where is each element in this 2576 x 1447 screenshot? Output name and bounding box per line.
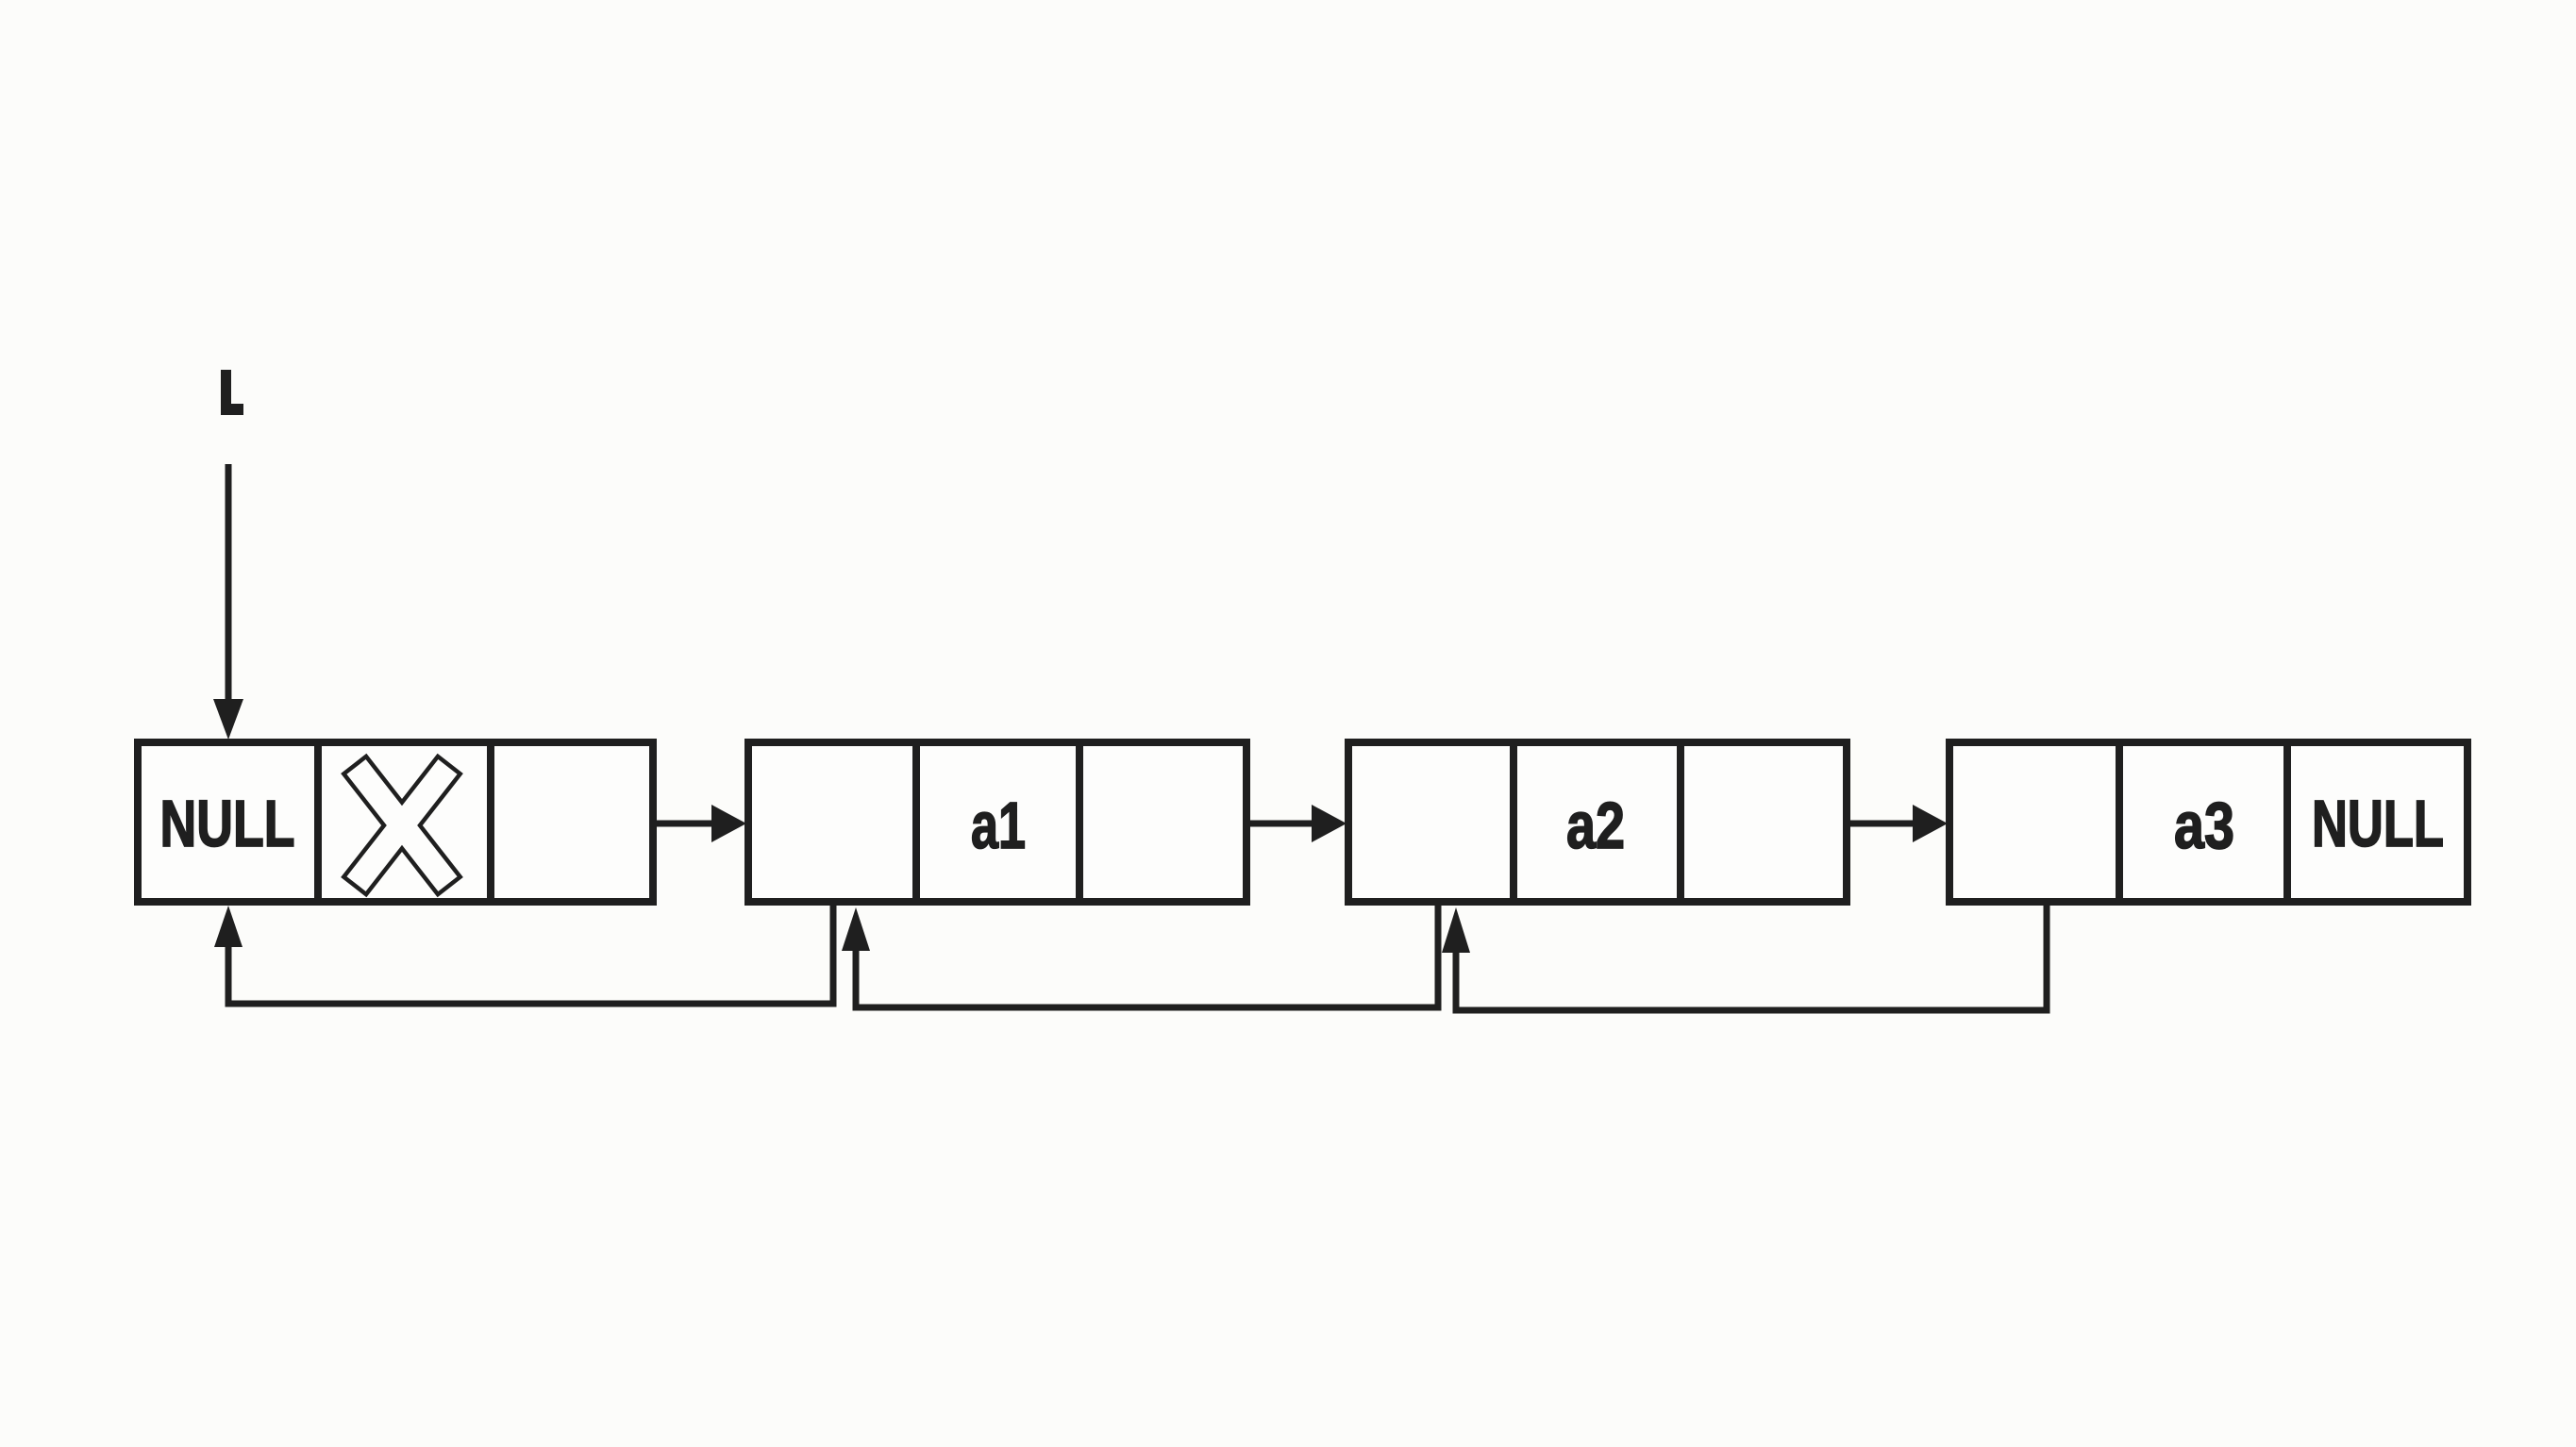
svg-text:a2: a2: [1566, 789, 1625, 862]
head node box: [138, 742, 653, 902]
svg-text:a1: a1: [971, 789, 1026, 862]
svg-text:NULL: NULL: [160, 787, 295, 860]
wire L arrow down to head node: [213, 464, 243, 740]
node L pointer label: [221, 370, 243, 415]
node a2 box: [1348, 742, 1847, 902]
wire next arrow head to a1: [657, 805, 746, 842]
wire back arrow a3 prior to a2 node: [1442, 904, 2047, 1010]
head node data field X mark: [343, 757, 460, 894]
node a3 box: [1949, 742, 2467, 902]
svg-text:NULL: NULL: [2312, 787, 2444, 860]
node a1 box: [748, 742, 1246, 902]
wire next arrow a2 to a3: [1850, 805, 1948, 842]
wire back arrow a2 prior to a1 node: [842, 904, 1438, 1007]
wire next arrow a1 to a2: [1250, 805, 1347, 842]
svg-text:a3: a3: [2174, 789, 2234, 862]
wire back arrow a1 prior to head node: [214, 904, 833, 1004]
